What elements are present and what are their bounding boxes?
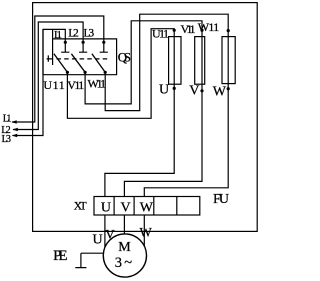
svg-text:U11: U11 (43, 78, 64, 92)
XT cell label V (121, 201, 131, 216)
svg-text:L2: L2 (68, 27, 79, 39)
fuse FU1 body (169, 37, 181, 85)
svg-text:W11: W11 (88, 77, 107, 91)
node L2 label (1, 125, 11, 136)
ground PE label (53, 248, 68, 264)
svg-text:V: V (121, 201, 131, 216)
terminal strip XT separators (114, 197, 177, 216)
QS linkage dashed (57, 58, 110, 60)
QS output label U11 (43, 78, 64, 92)
svg-text:W: W (140, 201, 154, 216)
svg-text:U: U (101, 201, 111, 216)
motor label M (118, 240, 131, 255)
svg-text:U11: U11 (152, 27, 169, 41)
fuse FU1 bottom dot (173, 87, 176, 90)
QS pole 3 bottom dot (104, 71, 107, 74)
fuse FU1 wire (105, 37, 174, 197)
fuse group label FU (213, 192, 229, 207)
svg-text:L1: L1 (54, 29, 62, 41)
svg-text:V: V (189, 84, 199, 99)
QS pole 3 top dot (102, 41, 105, 44)
wire XT W to motor (143, 215, 145, 246)
svg-text:L1: L1 (3, 114, 12, 125)
QS pole 1 blade (54, 54, 68, 72)
svg-text:W: W (213, 84, 227, 99)
fuse FU2 bottom dot (200, 89, 203, 92)
QS handle shaft (52, 29, 54, 65)
wire QS W11 to fuse FU3 (105, 14, 228, 110)
fuse FU1 top dot (173, 29, 176, 32)
QS pole 2 blade (71, 54, 85, 72)
QS pole 1 contact (61, 42, 69, 52)
fuse FU2 top dot (200, 29, 203, 32)
QS pole 2 contact (79, 42, 87, 52)
QS output label W11 (88, 77, 107, 91)
QS terminal label L1 (54, 29, 62, 41)
fuse FU1 bottom label U (159, 82, 169, 97)
fuse FU3 top dot (227, 29, 230, 32)
terminal strip XT label (74, 201, 87, 213)
fuse FU3 top label W11 (198, 20, 220, 34)
svg-text:L3: L3 (84, 27, 95, 39)
svg-text:XT: XT (74, 201, 87, 213)
enclosure border (33, 3, 258, 232)
svg-text:PE: PE (53, 248, 68, 264)
svg-text:3~: 3~ (115, 255, 132, 271)
svg-text:FU: FU (213, 192, 229, 207)
ground PE symbol (75, 253, 86, 267)
motor label 3~ (115, 255, 132, 271)
fuse FU2 wire (124, 37, 202, 197)
fuse FU2 top label V11 (181, 22, 196, 36)
node L3 label (2, 134, 12, 145)
QS pole 2 top dot (82, 41, 85, 44)
fuse FU3 body (222, 37, 235, 84)
svg-text:V11: V11 (181, 22, 196, 36)
motor wire label V (105, 226, 115, 241)
QS pole 1 top dot (64, 41, 67, 44)
svg-text:W: W (140, 225, 153, 240)
wire QS V11 to fuse FU2 (85, 21, 202, 104)
motor wire label W (140, 225, 153, 240)
XT cell label W (140, 201, 154, 216)
QS pole 3 blade (92, 54, 105, 72)
QS handle (47, 55, 53, 61)
svg-text:M: M (118, 240, 131, 255)
fuse FU3 wire (144, 37, 228, 197)
switch QS box (43, 29, 117, 74)
fuse FU3 bottom dot (227, 87, 230, 90)
svg-text:QS: QS (118, 50, 131, 65)
QS pole 2 bottom dot (84, 71, 87, 74)
wire L3 feed (13, 29, 66, 135)
fuse FU3 bottom label W (213, 84, 227, 99)
fuse FU2 body (195, 37, 205, 85)
node L1 arrowhead (11, 120, 16, 124)
svg-text:V11: V11 (67, 78, 84, 92)
wire PE to motor (81, 252, 104, 254)
wire QS U11 to fuse FU1 (67, 29, 174, 119)
fuse FU1 top label U11 (152, 27, 169, 41)
wire XT V to motor (123, 215, 125, 234)
wire L2 feed (13, 22, 83, 130)
node L1 label (3, 114, 12, 125)
svg-text:U: U (159, 82, 169, 97)
XT cell label U (101, 201, 111, 216)
svg-text:W11: W11 (198, 20, 220, 34)
QS pole 1 bottom dot (66, 71, 69, 74)
node L2 arrowhead (12, 128, 17, 132)
QS terminal label L3 (84, 27, 95, 39)
wire XT U to motor (104, 215, 106, 247)
QS pole 3 contact (100, 42, 108, 52)
wire L1 feed (12, 16, 104, 122)
svg-text:L3: L3 (2, 134, 12, 145)
QS terminal label L2 (68, 27, 79, 39)
terminal strip XT body (94, 197, 200, 216)
motor wire label U (93, 232, 103, 247)
QS output label V11 (67, 78, 84, 92)
node L3 arrowhead (12, 134, 17, 138)
motor M circle (103, 234, 146, 277)
switch QS label (118, 50, 131, 65)
svg-text:U: U (93, 232, 103, 247)
fuse FU2 bottom label V (189, 84, 199, 99)
